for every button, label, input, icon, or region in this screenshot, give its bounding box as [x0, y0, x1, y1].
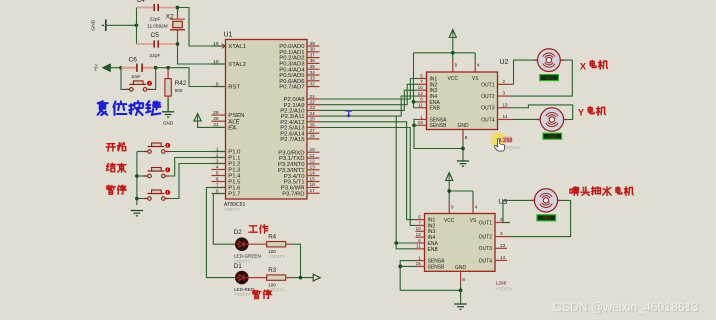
ground below R42: [162, 99, 174, 126]
svg-text:35: 35: [310, 64, 316, 70]
U1 pin 10 P3.0/RXD: [278, 147, 319, 156]
label 复位按键 (reset button, blue): [98, 101, 161, 115]
U2 pin 2 OUT1: [481, 79, 513, 88]
wire U3 GND pin to ground: [460, 284, 462, 304]
svg-text:9: 9: [455, 63, 458, 68]
junction crystal top: [176, 6, 180, 10]
svg-text:P3.7/RD: P3.7/RD: [282, 191, 304, 197]
U2 pin 15 SENSB: [418, 120, 448, 129]
svg-text:U1: U1: [224, 32, 233, 39]
U1 pin 6 P1.5: [212, 176, 242, 185]
svg-text:15: 15: [310, 176, 316, 182]
svg-text:37: 37: [310, 52, 316, 58]
U1 pin 35 P0.4/AD4: [279, 64, 319, 73]
label 暂停 (pause, red): [253, 290, 261, 298]
power terminal +5V (left): [94, 64, 111, 72]
svg-text:11.0592M: 11.0592M: [147, 24, 168, 29]
svg-text:L298: L298: [500, 138, 512, 144]
svg-text:R3: R3: [268, 267, 276, 274]
U1 pin 5 P1.4: [212, 170, 242, 179]
reset button wiring left: [121, 68, 129, 90]
svg-text:24: 24: [310, 111, 316, 117]
ground terminal (top-left GND): [91, 19, 106, 31]
junction U2 ENA: [412, 100, 416, 104]
svg-text:OUT2: OUT2: [481, 94, 495, 100]
motor X电机 (X axis motor): [534, 49, 563, 72]
svg-text:ENB: ENB: [430, 106, 441, 112]
U1 pin 27 P2.6/A14: [280, 128, 319, 137]
svg-text:9: 9: [451, 205, 454, 210]
U3 pin 6 ENA: [416, 238, 439, 247]
junction U3 SENSB: [398, 265, 402, 269]
U3 pin 5 IN1: [416, 214, 436, 223]
capacitor C4 22pF (top): [137, 0, 178, 22]
U3 pin 10 IN3: [416, 226, 436, 235]
ground below U2: [457, 160, 469, 162]
svg-text:+5V: +5V: [94, 64, 99, 72]
X motor rpm display: [540, 75, 559, 81]
wire rail to end button: [137, 175, 148, 177]
node D junction: [299, 276, 303, 280]
U2 pin 4 VS: [472, 60, 480, 82]
LED D2: [236, 238, 249, 251]
svg-text:VCC: VCC: [448, 76, 459, 82]
svg-text:CSDN @weixin_46018613: CSDN @weixin_46018613: [553, 300, 698, 314]
U1 pin 22 P2.1/A9: [284, 100, 320, 109]
svg-text:38: 38: [310, 47, 316, 53]
svg-text:D1: D1: [234, 263, 243, 270]
wire U3 ENA to ENB: [396, 243, 415, 249]
svg-text:5: 5: [418, 214, 421, 219]
svg-text:+0.0: +0.0: [542, 216, 551, 221]
svg-text:12: 12: [416, 232, 422, 237]
svg-text:X: X: [580, 61, 587, 72]
wire P2.3 branch to U3 ENA/ENB: [396, 116, 415, 243]
svg-text:14: 14: [500, 255, 506, 260]
ground below buttons: [131, 211, 143, 216]
U1 pin 37 P0.2/AD2: [279, 52, 319, 61]
push button 暂停: [144, 190, 170, 200]
pump motor rpm display: [537, 215, 556, 221]
U3 pin 7 IN2: [416, 220, 436, 229]
U2 pin 8 GND: [457, 123, 469, 142]
wire P2.1 to U2 IN2: [320, 84, 418, 104]
U3 VCC rail wire: [448, 181, 450, 192]
LED D1: [236, 271, 249, 284]
svg-text:OUT3: OUT3: [479, 246, 493, 252]
svg-text:OUT3: OUT3: [481, 106, 495, 112]
wire P1.7 to LED D2: [213, 194, 236, 245]
wire GND to crystal rail: [106, 24, 137, 26]
XTAL1 clock chevron: [222, 44, 226, 49]
svg-text:22pF: 22pF: [150, 53, 161, 59]
svg-text:<TEXT>: <TEXT>: [268, 254, 285, 259]
svg-text:21: 21: [310, 94, 316, 100]
junction U3 ground: [459, 288, 463, 292]
U3 pin 3 OUT2: [479, 231, 510, 240]
svg-text:2: 2: [503, 79, 506, 84]
U1 pin 26 P2.5/A13: [280, 122, 319, 131]
microcontroller U1 AT89C51: [224, 32, 308, 212]
wire P2.0 to U2 IN1: [320, 79, 418, 100]
U3 pin 11 ENB: [416, 244, 439, 253]
U1 pin 17 P3.7/RD: [282, 188, 319, 197]
svg-text:RST: RST: [228, 85, 240, 91]
motor driver U3 L298: [425, 199, 513, 291]
wire overlays on connected U1 left pins: [212, 45, 225, 47]
U1 pin 39 P0.0/AD0: [279, 41, 319, 50]
resistor R4 100: [267, 234, 286, 259]
wire U3 SENS to ground: [400, 266, 460, 290]
svg-text:VS: VS: [472, 76, 479, 82]
svg-text:VS: VS: [470, 218, 477, 224]
svg-text:11: 11: [310, 153, 315, 159]
svg-text:XTAL2: XTAL2: [228, 62, 246, 68]
U1 pin 4 P1.3: [212, 164, 242, 173]
junction U2 ground: [461, 147, 465, 151]
svg-text:GND: GND: [455, 265, 467, 271]
U1 pin 32 P0.7/AD7: [279, 81, 319, 90]
svg-text:XTAL1: XTAL1: [228, 44, 246, 50]
button rail wire: [136, 152, 138, 206]
U3 pin 9 VCC: [444, 202, 455, 224]
LED D1 lead to R3: [247, 277, 266, 279]
mouse wire-edit cursor (blue): [345, 110, 352, 118]
junction crystal bottom: [176, 42, 180, 46]
U1 pin 36 P0.3/AD3: [279, 58, 319, 67]
U1 pin 8 P1.7: [212, 188, 241, 197]
svg-text:EA: EA: [228, 126, 236, 132]
wire crystal left rail: [136, 8, 138, 45]
mouse hand cursor: [494, 139, 504, 151]
U2 pin 6 ENA: [418, 97, 441, 106]
svg-text:14: 14: [310, 170, 316, 176]
svg-text:11: 11: [416, 244, 421, 249]
label X电机: [580, 61, 608, 73]
svg-text:36: 36: [310, 58, 316, 64]
svg-text:15: 15: [416, 261, 422, 266]
power terminal above U3: [446, 173, 453, 181]
svg-text:34: 34: [310, 70, 316, 76]
watermark CSDN @weixin_46018613: [553, 300, 698, 314]
push button reset: [126, 81, 152, 91]
U3 pin 13 OUT3: [479, 243, 507, 252]
wire P1.6 to LED D1: [206, 188, 236, 278]
U1 pin 11 P3.1/TXD: [279, 153, 320, 162]
svg-text:C5: C5: [151, 32, 160, 39]
U3 pin 14 OUT4: [479, 255, 507, 264]
wire end button to P1.1: [167, 158, 212, 177]
svg-text:5: 5: [216, 170, 219, 176]
U2 VCC rail wire: [452, 38, 454, 53]
wire P2.3 to U2 IN4: [320, 96, 418, 116]
U1 pin 1 P1.0: [212, 146, 242, 155]
motor 喷头抽水电机 (pump motor): [531, 189, 561, 212]
svg-text:12: 12: [310, 159, 316, 165]
svg-text:22pF: 22pF: [150, 17, 161, 23]
wire U3 OUT2 to pump motor: [510, 200, 571, 236]
U2 pin 1 SENSA: [418, 114, 448, 123]
svg-text:23: 23: [310, 105, 316, 111]
svg-text:4: 4: [216, 164, 219, 170]
svg-text:8: 8: [465, 135, 468, 140]
U1 pin 31 EA: [212, 122, 237, 131]
svg-text:P0.7/AD7: P0.7/AD7: [279, 85, 304, 91]
svg-text:SENSB: SENSB: [430, 123, 448, 129]
wire P2.2 to U2 IN3: [320, 90, 418, 110]
svg-text:+0.0: +0.0: [545, 75, 554, 80]
U1 pin 33 P0.6/AD6: [279, 76, 319, 85]
junction U2 SENSB: [412, 123, 416, 127]
U2 pin 13 OUT3: [481, 102, 510, 111]
U2 pin 5 IN1: [418, 73, 438, 82]
motor Y电机 (Y axis motor): [537, 108, 567, 131]
label 工作 (working): [249, 226, 257, 232]
wire U2 SENS to ground: [414, 125, 463, 148]
svg-text:SENSB: SENSB: [428, 264, 446, 270]
svg-text:13: 13: [310, 165, 316, 171]
svg-text:13: 13: [500, 243, 506, 248]
U2 pin 10 IN3: [418, 85, 438, 94]
svg-text:PSEN: PSEN: [228, 113, 244, 119]
svg-text:ENB: ENB: [428, 247, 439, 253]
wire U2 OUT1 to X motor: [514, 60, 538, 84]
wire pause button to P1.2: [167, 164, 212, 199]
wire U2 OUT3 to Y motor (over the top): [510, 105, 573, 120]
svg-text:OUT4: OUT4: [481, 117, 495, 123]
svg-text:15: 15: [418, 120, 424, 125]
label 暂停 (pause): [107, 185, 116, 194]
wire rail to start button: [137, 151, 148, 153]
svg-text:5: 5: [420, 73, 423, 78]
junction VCC rail: [451, 51, 455, 55]
U1 pin 21 P2.0/A8: [284, 94, 320, 103]
U1 pin 3 P1.2: [212, 158, 241, 167]
node B junction: [154, 66, 158, 70]
node C junction at R42 top: [166, 66, 170, 70]
svg-text:10uF: 10uF: [131, 74, 141, 79]
svg-text:12: 12: [418, 91, 424, 96]
svg-text:29: 29: [213, 110, 219, 116]
power terminal right arrow: [313, 274, 320, 281]
power terminal above U2: [449, 30, 456, 38]
svg-text:11: 11: [418, 103, 423, 108]
svg-text:22: 22: [310, 100, 316, 106]
U2 pin 14 OUT4: [481, 114, 513, 123]
svg-text:P2.7/A15: P2.7/A15: [280, 137, 305, 143]
svg-text:GND: GND: [163, 121, 174, 126]
U1 pin 25 P2.4/A12: [280, 117, 319, 126]
label 喷头抽水电机: [570, 187, 633, 196]
junction U3 VCC rail: [447, 189, 451, 193]
wire R4 to node D: [286, 243, 292, 245]
svg-text:13: 13: [503, 102, 509, 107]
U3 pin 1 SENSA: [416, 255, 446, 264]
U1 pin 30 ALE: [212, 116, 240, 125]
wire U2 SENSA-SENSB: [414, 119, 418, 125]
U1 pin 2 P1.1: [212, 152, 241, 161]
Y motor rpm display: [543, 133, 562, 139]
U1 pin 14 P3.4/T0: [284, 170, 320, 179]
svg-text:Y: Y: [578, 108, 585, 119]
push button 结束: [144, 167, 170, 177]
U1 pin 23 P2.2/A10: [280, 105, 319, 114]
wire VCC rail to U2 ENA/ENB: [414, 53, 418, 102]
svg-text:26: 26: [310, 122, 316, 128]
svg-text:GND: GND: [91, 19, 97, 30]
U3 pin 4 VS: [470, 202, 478, 224]
U2 pin 7 IN2: [418, 79, 438, 88]
svg-text:D2: D2: [234, 229, 243, 236]
svg-text:4: 4: [475, 205, 478, 210]
wire P2.4 to U3 IN1: [320, 122, 416, 220]
svg-text:OUT1: OUT1: [479, 220, 493, 226]
junction on crystal rail: [135, 23, 139, 27]
U1 pin 16 P3.6/WR: [281, 182, 320, 191]
svg-text:32: 32: [310, 81, 316, 87]
junction rail-暂停: [135, 197, 139, 201]
wire U2 OUT4 to Y motor: [514, 118, 541, 120]
U1 pin 7 P1.6: [212, 182, 242, 191]
power terminal at EA pin: [194, 114, 201, 122]
wire EA power to EA pin: [198, 121, 212, 127]
wire U2 OUT2 to X motor: [510, 60, 572, 96]
U1 pin 24 P2.3/A11: [281, 111, 320, 120]
U1 pin 29 PSEN: [212, 110, 245, 119]
U2 pin 12 IN4: [418, 91, 438, 100]
U1 pin 34 P0.5/AD5: [279, 70, 319, 79]
svg-text:7: 7: [420, 79, 423, 84]
svg-text:OUT2: OUT2: [479, 235, 493, 241]
svg-text:+0.0: +0.0: [548, 134, 557, 139]
U1 pin 15 P3.5/T1: [284, 176, 320, 185]
svg-text:7: 7: [418, 220, 421, 225]
svg-text:30: 30: [213, 116, 219, 122]
svg-text:39: 39: [310, 41, 316, 47]
wire U3 SENSA-SENSB: [400, 261, 415, 267]
capacitor C6 10uF: [121, 57, 156, 79]
svg-text:6: 6: [420, 97, 423, 102]
svg-text:OUT1: OUT1: [481, 82, 495, 88]
svg-text:R4: R4: [268, 234, 276, 241]
svg-text:<TEXT>: <TEXT>: [496, 286, 513, 291]
capacitor C5 22pF (bottom): [137, 32, 178, 59]
label L298 of U2 (highlighted): [491, 132, 521, 150]
wire crystal bottom to XTAL2: [178, 44, 212, 64]
U2 pin 3 OUT2: [481, 91, 510, 100]
svg-text:GND: GND: [457, 123, 469, 129]
svg-text:8: 8: [462, 277, 465, 282]
svg-text:6: 6: [418, 238, 421, 243]
ground below U3: [454, 303, 466, 305]
svg-text:25: 25: [310, 117, 316, 123]
label Y电机: [578, 107, 606, 119]
U2 pin 11 ENB: [418, 103, 441, 112]
svg-text:<TEXT>: <TEXT>: [224, 207, 241, 212]
wire +5V to node A: [110, 67, 121, 69]
svg-text:16: 16: [310, 182, 316, 188]
node A junction: [119, 66, 123, 70]
svg-text:17: 17: [310, 188, 316, 194]
U2 pin 9 VCC: [448, 60, 459, 82]
U3 pin 12 IN4: [416, 232, 436, 241]
U1 pin 28 P2.7/A15: [280, 134, 319, 143]
resistor R42 500 (vertical): [165, 68, 187, 99]
svg-text:C4: C4: [137, 0, 145, 4]
crystal X2 11.0592M: [147, 8, 185, 45]
U1 pin 9 RST: [212, 81, 241, 90]
svg-text:28: 28: [310, 134, 316, 140]
motor driver U2 L298: [427, 59, 509, 130]
wire R3 to node D and output arrow: [286, 277, 292, 279]
label 开始 (start): [106, 144, 115, 151]
svg-text:10: 10: [416, 226, 422, 231]
LED D2 lead to R4: [247, 243, 266, 245]
wire U2 GND pin to ground: [462, 142, 464, 161]
wire rail to pause button: [137, 198, 148, 200]
svg-text:10: 10: [418, 85, 424, 90]
svg-text:10: 10: [310, 147, 316, 153]
junction rail-结束: [135, 174, 139, 178]
svg-text:33: 33: [310, 76, 316, 82]
svg-text:6: 6: [216, 176, 219, 182]
svg-text:<TEXT>: <TEXT>: [268, 287, 285, 292]
U1 pin 18 XTAL2: [212, 59, 246, 68]
svg-text:C6: C6: [129, 57, 138, 64]
svg-text:ALE: ALE: [228, 119, 239, 125]
U1 pin 19 XTAL1: [212, 41, 246, 50]
svg-text:<TEXT>: <TEXT>: [504, 146, 521, 151]
svg-text:500: 500: [175, 88, 183, 93]
svg-text:VCC: VCC: [444, 218, 455, 224]
svg-text:R42: R42: [175, 80, 187, 87]
wire U3 OUT1 to pump motor: [503, 222, 510, 224]
svg-text:X2: X2: [166, 13, 175, 20]
svg-text:1: 1: [420, 114, 423, 119]
svg-text:OUT4: OUT4: [479, 258, 493, 264]
svg-text:<TEXT>: <TEXT>: [234, 292, 251, 297]
U1 pin 12 P3.2/INT0: [278, 159, 320, 168]
junction U3 ENA: [394, 241, 398, 245]
svg-text:3: 3: [500, 231, 503, 236]
svg-text:1: 1: [418, 255, 421, 260]
wire node B to RST corner: [156, 68, 212, 87]
svg-text:4: 4: [477, 63, 480, 68]
U3 pin 8 GND: [455, 265, 467, 284]
wire crystal top to XTAL1: [178, 8, 212, 47]
reset button wiring right: [148, 68, 156, 90]
wire P2.5 to U3 IN2: [320, 128, 416, 226]
U1 pin 38 P0.1/AD1: [279, 47, 319, 56]
wire U2 ENA to ENB: [414, 102, 418, 108]
svg-text:14: 14: [503, 114, 509, 119]
U3 pin 15 SENSB: [416, 261, 446, 270]
label 结束 (end): [106, 163, 115, 171]
svg-text:U2: U2: [500, 59, 509, 66]
push button 开始: [144, 143, 170, 153]
svg-text:P1.7: P1.7: [228, 192, 240, 198]
svg-text:27: 27: [310, 128, 316, 134]
wire start button to P1.0: [167, 151, 212, 153]
U1 pin 13 P3.3/INT1: [278, 165, 320, 174]
svg-text:3: 3: [503, 91, 506, 96]
U3 pin 2 OUT1: [479, 217, 510, 226]
resistor R3 100: [267, 267, 286, 292]
